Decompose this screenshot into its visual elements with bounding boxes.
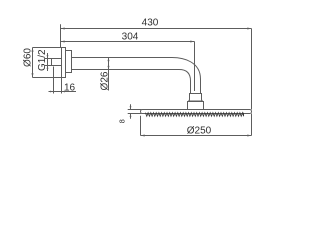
svg-text:8: 8	[118, 119, 127, 123]
svg-text:Ø26: Ø26	[100, 71, 111, 90]
svg-text:Ø250: Ø250	[187, 126, 212, 137]
svg-text:16: 16	[64, 82, 76, 93]
svg-text:430: 430	[142, 18, 159, 29]
svg-text:304: 304	[122, 31, 139, 42]
svg-text:Ø60: Ø60	[22, 48, 33, 67]
svg-text:G1/2: G1/2	[37, 49, 48, 71]
